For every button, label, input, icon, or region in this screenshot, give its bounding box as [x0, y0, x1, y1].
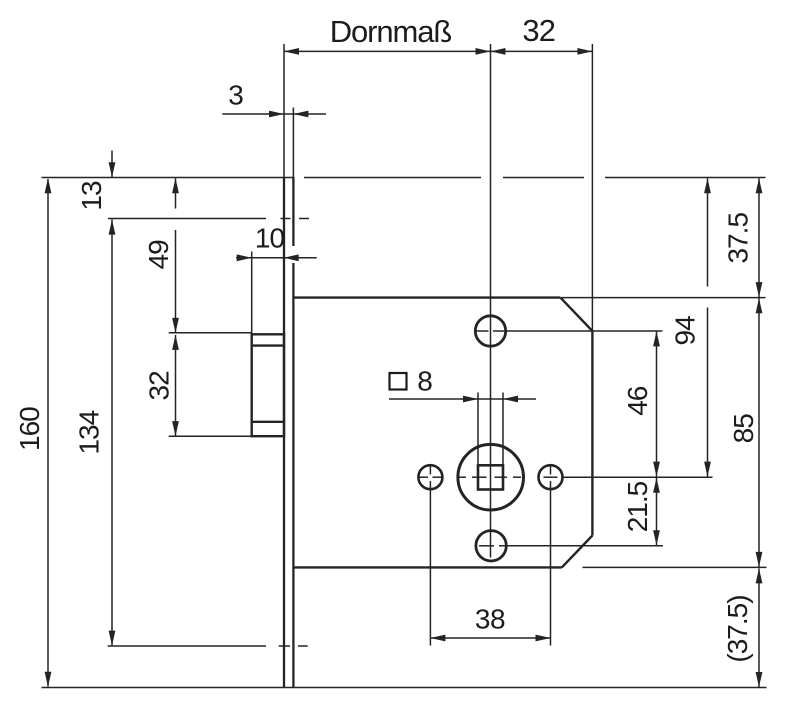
lock case right edge	[591, 331, 593, 536]
top fixing hole	[475, 316, 505, 346]
svg-text:37.5: 37.5	[723, 213, 754, 264]
faceplate-front extension line up	[283, 44, 285, 178]
deadbolt inner line lower	[252, 421, 284, 423]
top screw centerline (dashed)	[108, 218, 266, 220]
dimension 49	[175, 178, 177, 208]
case-top reference line extended right	[561, 297, 765, 299]
faceplate right edge (gap at 10-dim arrow)	[292, 178, 294, 247]
case-bottom reference line extended right	[583, 566, 767, 568]
svg-text:(37.5): (37.5)	[722, 595, 753, 662]
left handle screw hole	[418, 465, 442, 489]
svg-text:Dornmaß: Dornmaß	[330, 14, 452, 49]
lock case bottom edge	[294, 566, 562, 568]
bolt-bottom reference line	[169, 435, 252, 437]
lock case top-right chamfer	[560, 298, 592, 331]
svg-text:13: 13	[76, 181, 107, 211]
svg-text:94: 94	[669, 316, 700, 346]
svg-text:85: 85	[728, 414, 759, 444]
dimension 32 top	[491, 50, 593, 52]
bottom hole centerline extended right	[479, 545, 494, 547]
svg-text:160: 160	[14, 407, 45, 451]
svg-text:46: 46	[622, 386, 653, 416]
svg-text:38: 38	[475, 603, 505, 634]
lock case top edge	[294, 296, 560, 298]
dimension 13	[111, 151, 113, 178]
svg-text:49: 49	[143, 240, 174, 270]
square hole extension lines up	[477, 393, 479, 465]
dimension 32 (bolt height)	[175, 335, 177, 436]
deadbolt head outline	[252, 334, 284, 436]
svg-text:3: 3	[228, 80, 243, 111]
dimension (37.5) bottom right	[758, 568, 760, 687]
top reference line y=177.5	[42, 177, 295, 179]
dimension 38 (hole spacing)	[430, 637, 550, 639]
left hole centerline down	[429, 464, 431, 475]
svg-text:8: 8	[417, 366, 432, 397]
bottom screw centerline (dashed)	[108, 645, 266, 647]
right hole centerline down	[550, 464, 552, 475]
dimension 160 (overall height)	[47, 179, 49, 687]
dimension Dornmass	[284, 50, 491, 52]
dimension 10 (bolt protrusion)	[236, 257, 317, 259]
case-right extension line up	[591, 44, 593, 331]
top hole centerline extended right	[476, 330, 489, 332]
svg-text:32: 32	[144, 371, 175, 401]
right handle screw hole	[539, 465, 563, 489]
dimension 21.5	[656, 478, 658, 546]
spindle vertical centerline	[490, 44, 492, 558]
dimension 3 (faceplate thickness)	[222, 113, 326, 115]
spindle follower circle	[458, 444, 524, 510]
lock case bottom-right chamfer	[562, 536, 593, 568]
square spindle hole 8mm	[478, 465, 503, 489]
svg-text:134: 134	[73, 410, 104, 454]
deadbolt inner line upper	[252, 344, 284, 346]
bottom reference line y=687.5	[42, 687, 767, 689]
bolt-front extension line up	[251, 252, 253, 335]
dimension square 8	[389, 398, 536, 400]
bottom fixing hole	[476, 531, 506, 561]
svg-text:10: 10	[255, 223, 285, 254]
spindle horizontal centerline dashes	[419, 476, 429, 478]
svg-text:21.5: 21.5	[622, 481, 653, 532]
dimension 94	[707, 178, 709, 286]
dimension 85	[758, 298, 760, 567]
dimension 37.5 top right	[758, 178, 760, 297]
faceplate-back extension line up	[292, 108, 294, 178]
dimension 46	[656, 331, 658, 476]
svg-text:32: 32	[522, 13, 555, 48]
bolt-top reference line	[169, 332, 252, 334]
dimension 134	[111, 220, 113, 646]
faceplate left edge	[283, 178, 285, 688]
